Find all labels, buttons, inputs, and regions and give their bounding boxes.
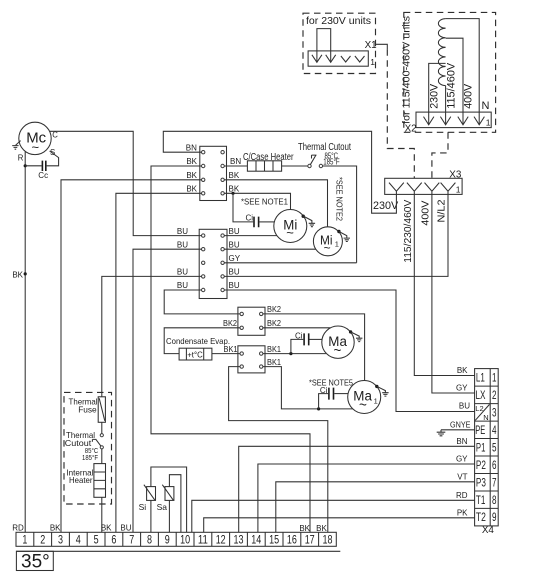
- svg-text:8: 8: [492, 493, 497, 507]
- transformer T winding: [438, 19, 445, 86]
- svg-text:5: 5: [492, 440, 497, 454]
- svg-text:17: 17: [305, 533, 315, 547]
- wire Mc C right, down, to connector K2 row1: [50, 131, 202, 235]
- svg-text:*SEE NOTE2: *SEE NOTE2: [335, 177, 345, 221]
- dashed line X1 to X3 pin 2: [387, 49, 414, 178]
- svg-text:BK: BK: [299, 524, 310, 533]
- svg-text:6: 6: [111, 533, 116, 547]
- svg-text:BU: BU: [177, 268, 188, 277]
- ground at Mi1: [337, 230, 340, 233]
- svg-text:L1: L1: [476, 371, 485, 385]
- svg-text:BU: BU: [177, 227, 188, 236]
- svg-text:18: 18: [323, 533, 333, 547]
- svg-text:X2: X2: [405, 124, 417, 135]
- svg-text:GY: GY: [456, 455, 468, 464]
- svg-text:1: 1: [22, 533, 27, 547]
- svg-text:BN: BN: [230, 157, 241, 166]
- wire BK: K1 row3 left down to terminal 3: [61, 180, 202, 533]
- wire VT: X4 P3 left to terminal 15: [276, 482, 475, 533]
- svg-text:T1: T1: [476, 493, 486, 507]
- wire BU (N/L2): K2 row4 right to X3 pin4: [224, 194, 448, 276]
- svg-text:Sa: Sa: [157, 502, 168, 512]
- X2 pin 1 arrowhead: [424, 117, 434, 125]
- svg-text:PE: PE: [475, 423, 485, 437]
- wire RD: X4 T1 left to terminal 10: [192, 500, 475, 532]
- svg-text:Fuse: Fuse: [78, 405, 97, 415]
- svg-text:400V: 400V: [420, 200, 431, 225]
- wire BK2: K3 row2 left down to condensate heater: [164, 328, 240, 354]
- svg-text:BU: BU: [177, 240, 188, 249]
- svg-text:for 115/400-460V units: for 115/400-460V units: [402, 16, 413, 124]
- svg-text:Condensate Evap.: Condensate Evap.: [166, 337, 230, 346]
- X3 pin 4 socket: [441, 183, 456, 195]
- wire BK: K1 row2 left down to terminal 17: [151, 166, 310, 532]
- K4 pins: [240, 352, 243, 355]
- wire BK2: K3 row1 right down to Ma1 top: [263, 314, 365, 381]
- sensor Si: [147, 487, 156, 501]
- wire GY: K2 row3 right to thermal cutout net: [224, 262, 356, 264]
- svg-text:4: 4: [76, 533, 81, 547]
- svg-text:8: 8: [147, 533, 152, 547]
- ground at Ma1: [375, 385, 378, 388]
- K3 pins: [240, 312, 243, 315]
- svg-text:Cc: Cc: [38, 171, 48, 180]
- svg-text:C/Case Heater: C/Case Heater: [243, 152, 294, 163]
- wire cutout to internal heater: [101, 449, 103, 464]
- internal heater: [94, 464, 106, 498]
- svg-text:P1: P1: [476, 440, 486, 454]
- wire junction down to capacitor Ci: [233, 193, 253, 222]
- wire BU: K2 row2 right to Mi1: [224, 248, 315, 250]
- svg-text:GY: GY: [456, 383, 468, 392]
- svg-text:16: 16: [287, 533, 297, 547]
- wire heater down to terminal 5: [101, 497, 103, 532]
- wire junction up to capacitor Ci (Ma1): [319, 394, 329, 409]
- svg-text:~: ~: [333, 343, 341, 358]
- wire: K4 row2 left down to terminal 18: [229, 367, 328, 533]
- sensor Sa: [165, 487, 174, 501]
- svg-text:BN: BN: [186, 144, 197, 153]
- fan motor Mi1: [313, 227, 342, 256]
- svg-text:BK: BK: [12, 271, 23, 280]
- wire BN: X4 P1 left to terminal 13: [239, 446, 475, 532]
- fan motor Ma1: [348, 381, 381, 414]
- K2 pins left: [202, 234, 205, 237]
- svg-text:9: 9: [492, 510, 497, 524]
- terminal strip 1-18: [16, 532, 336, 546]
- svg-text:BK: BK: [229, 171, 240, 180]
- wire BK1: K4 row2 right down to Ma1 bottom: [263, 367, 353, 409]
- svg-text:1: 1: [374, 397, 378, 406]
- svg-text:T2: T2: [476, 510, 486, 524]
- svg-text:230V: 230V: [373, 200, 399, 212]
- X1 pin 3 chevron: [341, 56, 351, 62]
- wire GY: X4 P2 left to terminal 14: [258, 464, 475, 532]
- svg-text:BK: BK: [457, 366, 468, 375]
- wire heater to thermal cutout: [282, 165, 308, 167]
- wire BU: K2 row1 right to Mi: [224, 235, 277, 237]
- wire BK1: K4 row1 right to Ma bottom: [263, 353, 326, 355]
- wire transformer top tap to X2 pin 4 (N): [446, 19, 480, 125]
- svg-text:N: N: [483, 413, 488, 422]
- svg-text:Ci: Ci: [320, 386, 328, 395]
- svg-text:6: 6: [492, 458, 497, 472]
- X1 pin 1 arrow: [312, 55, 322, 63]
- svg-text:115/460V: 115/460V: [445, 62, 457, 109]
- K1 pins right: [221, 151, 224, 154]
- svg-text:GY: GY: [229, 254, 241, 263]
- svg-text:BU: BU: [229, 281, 240, 290]
- X3 pin 3 socket: [425, 183, 440, 195]
- svg-text:BK1: BK1: [267, 358, 282, 367]
- ground at Ma: [349, 330, 352, 333]
- svg-text:BN: BN: [456, 437, 467, 446]
- svg-text:35°: 35°: [21, 552, 50, 573]
- connector X2: [416, 112, 491, 128]
- svg-text:VT: VT: [457, 472, 467, 481]
- svg-text:P2: P2: [476, 458, 486, 472]
- svg-text:*SEE NOTE1: *SEE NOTE1: [241, 197, 288, 207]
- wire Mc R down to terminal 1: [24, 152, 26, 533]
- svg-text:1: 1: [335, 240, 339, 249]
- wire BK: K1 row3 right down to fan Mi1: [224, 180, 327, 227]
- connector K1 body: [200, 146, 227, 200]
- svg-text:~: ~: [359, 398, 367, 413]
- svg-text:15: 15: [269, 533, 279, 547]
- wire transformer tap to X2 pin 1 (230V): [429, 63, 446, 124]
- svg-text:RD: RD: [12, 523, 24, 532]
- svg-text:7: 7: [129, 533, 134, 547]
- svg-text:13: 13: [234, 533, 244, 547]
- svg-text:BK2: BK2: [267, 305, 282, 314]
- wire X3 pin2 down to X4 L1: [414, 194, 474, 375]
- svg-text:BU: BU: [177, 281, 188, 290]
- connector K3 body: [238, 307, 265, 335]
- compressor motor Mc: [19, 122, 51, 154]
- svg-text:BK: BK: [186, 185, 197, 194]
- wire Si bottom to terminal 8: [150, 500, 152, 532]
- svg-text:P3: P3: [476, 475, 486, 489]
- svg-text:BU: BU: [120, 523, 131, 532]
- svg-text:X1: X1: [365, 40, 378, 51]
- K2 pins right: [221, 234, 224, 237]
- X2 pin 3 arrowhead: [458, 117, 468, 125]
- wire BK: K1 row4 right to Mi top: [224, 193, 290, 209]
- svg-text:+t°C: +t°C: [187, 350, 203, 359]
- wire BU: K2 row2 left down to terminal 7: [133, 249, 202, 532]
- connector K2 body: [199, 229, 227, 298]
- connector X3: [385, 178, 462, 194]
- connector X1: [308, 51, 368, 66]
- junction Mc R / Cc: [24, 164, 27, 167]
- dashed line X2 to X3 pin 3: [432, 132, 448, 178]
- X1 corner bracket: [376, 44, 388, 49]
- wire BK: K1 row4 left down to terminal 6: [116, 193, 202, 532]
- wire PK: X4 T2 left to terminal 11: [204, 518, 475, 533]
- wire junction up to capacitor Ci (Ma): [291, 339, 303, 353]
- bottom rail line: [16, 550, 340, 552]
- wire BU: K2 row5 right to X4 L2/N: [224, 290, 474, 412]
- svg-text:BK: BK: [186, 157, 197, 166]
- wire Si top to terminal 10: [151, 467, 187, 532]
- X3 pin 1 socket: [389, 183, 404, 195]
- svg-text:2: 2: [40, 533, 45, 547]
- svg-text:3: 3: [58, 533, 63, 547]
- svg-text:for 230V units: for 230V units: [306, 16, 371, 27]
- svg-text:N: N: [482, 100, 490, 112]
- svg-text:Si: Si: [139, 502, 147, 512]
- X1 pin 4 chevron: [355, 56, 365, 62]
- svg-text:Ci: Ci: [245, 214, 253, 223]
- svg-text:BU: BU: [459, 402, 470, 411]
- wire GNYE / PE with ground: [441, 429, 475, 431]
- thermal cutout switch (top): [308, 164, 311, 167]
- svg-text:9: 9: [165, 533, 170, 547]
- svg-text:BU: BU: [229, 268, 240, 277]
- jumper link on X1 pins 1-2: [317, 29, 331, 63]
- wire transformer tap to X2 pin 3 (400V): [446, 38, 463, 125]
- svg-text:1: 1: [370, 57, 375, 67]
- fan motor Mi: [274, 210, 307, 243]
- dashed box for 115/400-460V units: [404, 12, 496, 132]
- capacitor Cc: [25, 165, 41, 167]
- svg-text:185°F: 185°F: [82, 453, 98, 462]
- connector K4 body: [238, 346, 265, 373]
- svg-text:BK: BK: [229, 185, 240, 194]
- svg-text:R: R: [18, 153, 24, 162]
- svg-text:1: 1: [486, 118, 491, 128]
- svg-text:BK: BK: [101, 523, 112, 532]
- svg-text:115/230/460V: 115/230/460V: [403, 199, 414, 262]
- ground at Mc: [16, 141, 21, 146]
- X1 pin 2 arrow: [326, 55, 336, 63]
- svg-text:2: 2: [492, 388, 497, 402]
- ground at Mi: [302, 215, 305, 218]
- svg-text:4: 4: [492, 423, 497, 437]
- svg-text:*SEE NOTE5: *SEE NOTE5: [309, 377, 353, 387]
- K1 pins left: [202, 151, 205, 154]
- svg-text:BK: BK: [316, 524, 327, 533]
- svg-text:~: ~: [32, 139, 40, 154]
- svg-text:5: 5: [94, 533, 99, 547]
- svg-text:BU: BU: [229, 240, 240, 249]
- junction K1 row4 / Ci: [231, 192, 234, 195]
- terminal block X4: [475, 369, 499, 526]
- wire BN net: K1 row1 up and right to X3 pin1: [163, 131, 396, 213]
- svg-text:BK2: BK2: [223, 319, 238, 328]
- dashed box for 230V units: [303, 13, 376, 73]
- wire BK2: K3 row2 right to Ma: [263, 327, 331, 329]
- svg-text:14: 14: [251, 533, 261, 547]
- svg-text:7: 7: [492, 475, 497, 489]
- X4 cell L2/N: [475, 404, 489, 420]
- thermal fuse: [98, 397, 105, 423]
- svg-text:Heater: Heater: [69, 475, 93, 485]
- wire fuse to thermal cutout: [101, 422, 103, 433]
- svg-text:10: 10: [180, 533, 190, 547]
- wire BU: K2 row5 left to K3 row1: [164, 290, 240, 314]
- wire X3 pin3 down to X4 LX: [432, 194, 475, 393]
- svg-text:X3: X3: [449, 170, 462, 181]
- 35 degree box: [16, 551, 53, 570]
- junction BK1 / Ci at Ma: [289, 352, 292, 355]
- svg-text:BK: BK: [50, 523, 61, 532]
- fan motor Ma: [322, 326, 354, 358]
- wire BN: K1 row2 right to case heater: [224, 165, 247, 167]
- svg-text:X4: X4: [482, 525, 495, 536]
- svg-text:BK2: BK2: [267, 319, 282, 328]
- svg-text:LX: LX: [476, 388, 486, 402]
- svg-text:~: ~: [324, 241, 331, 255]
- svg-text:BK1: BK1: [224, 345, 239, 354]
- X3 pin 2 socket: [407, 183, 422, 195]
- wire thermal cutout right down to K2 row3 (GY): [323, 166, 357, 263]
- svg-text:BK: BK: [186, 171, 197, 180]
- svg-text:11: 11: [198, 533, 208, 547]
- svg-text:1: 1: [492, 371, 497, 385]
- ground symbol PE: [440, 430, 442, 432]
- svg-text:BK1: BK1: [267, 345, 282, 354]
- svg-text:400V: 400V: [463, 83, 475, 109]
- thermal cutout switch (lower): [100, 434, 103, 437]
- wire transformer bottom to X2 pin 2 (115/460V): [445, 86, 447, 125]
- svg-text:L2: L2: [475, 404, 483, 413]
- svg-text:GNYE: GNYE: [450, 420, 471, 429]
- X2 pin 4 arrowhead: [474, 117, 484, 125]
- svg-text:230V: 230V: [429, 83, 441, 109]
- svg-text:185°F: 185°F: [323, 158, 340, 167]
- wire BU: K2 row4 left to thermal fuse chain: [102, 276, 202, 396]
- svg-text:3: 3: [492, 406, 497, 420]
- junction BK1 / Ci at Ma1: [317, 407, 320, 410]
- wire Sa top to terminal 10: [169, 475, 181, 533]
- svg-text:PK: PK: [457, 508, 468, 517]
- dashed enclosure (compressor protection): [64, 392, 112, 504]
- X2 pin 2 arrowhead: [440, 117, 450, 125]
- svg-text:RD: RD: [456, 491, 468, 500]
- svg-text:~: ~: [286, 225, 294, 240]
- svg-text:BU: BU: [229, 227, 240, 236]
- svg-text:Ci: Ci: [295, 332, 303, 341]
- svg-text:1: 1: [456, 185, 461, 195]
- svg-text:N/L2: N/L2: [437, 199, 448, 222]
- wire BK1: heater to K4 row1: [212, 353, 240, 355]
- wire Sa bottom to terminal 9: [168, 500, 170, 532]
- svg-text:12: 12: [216, 533, 226, 547]
